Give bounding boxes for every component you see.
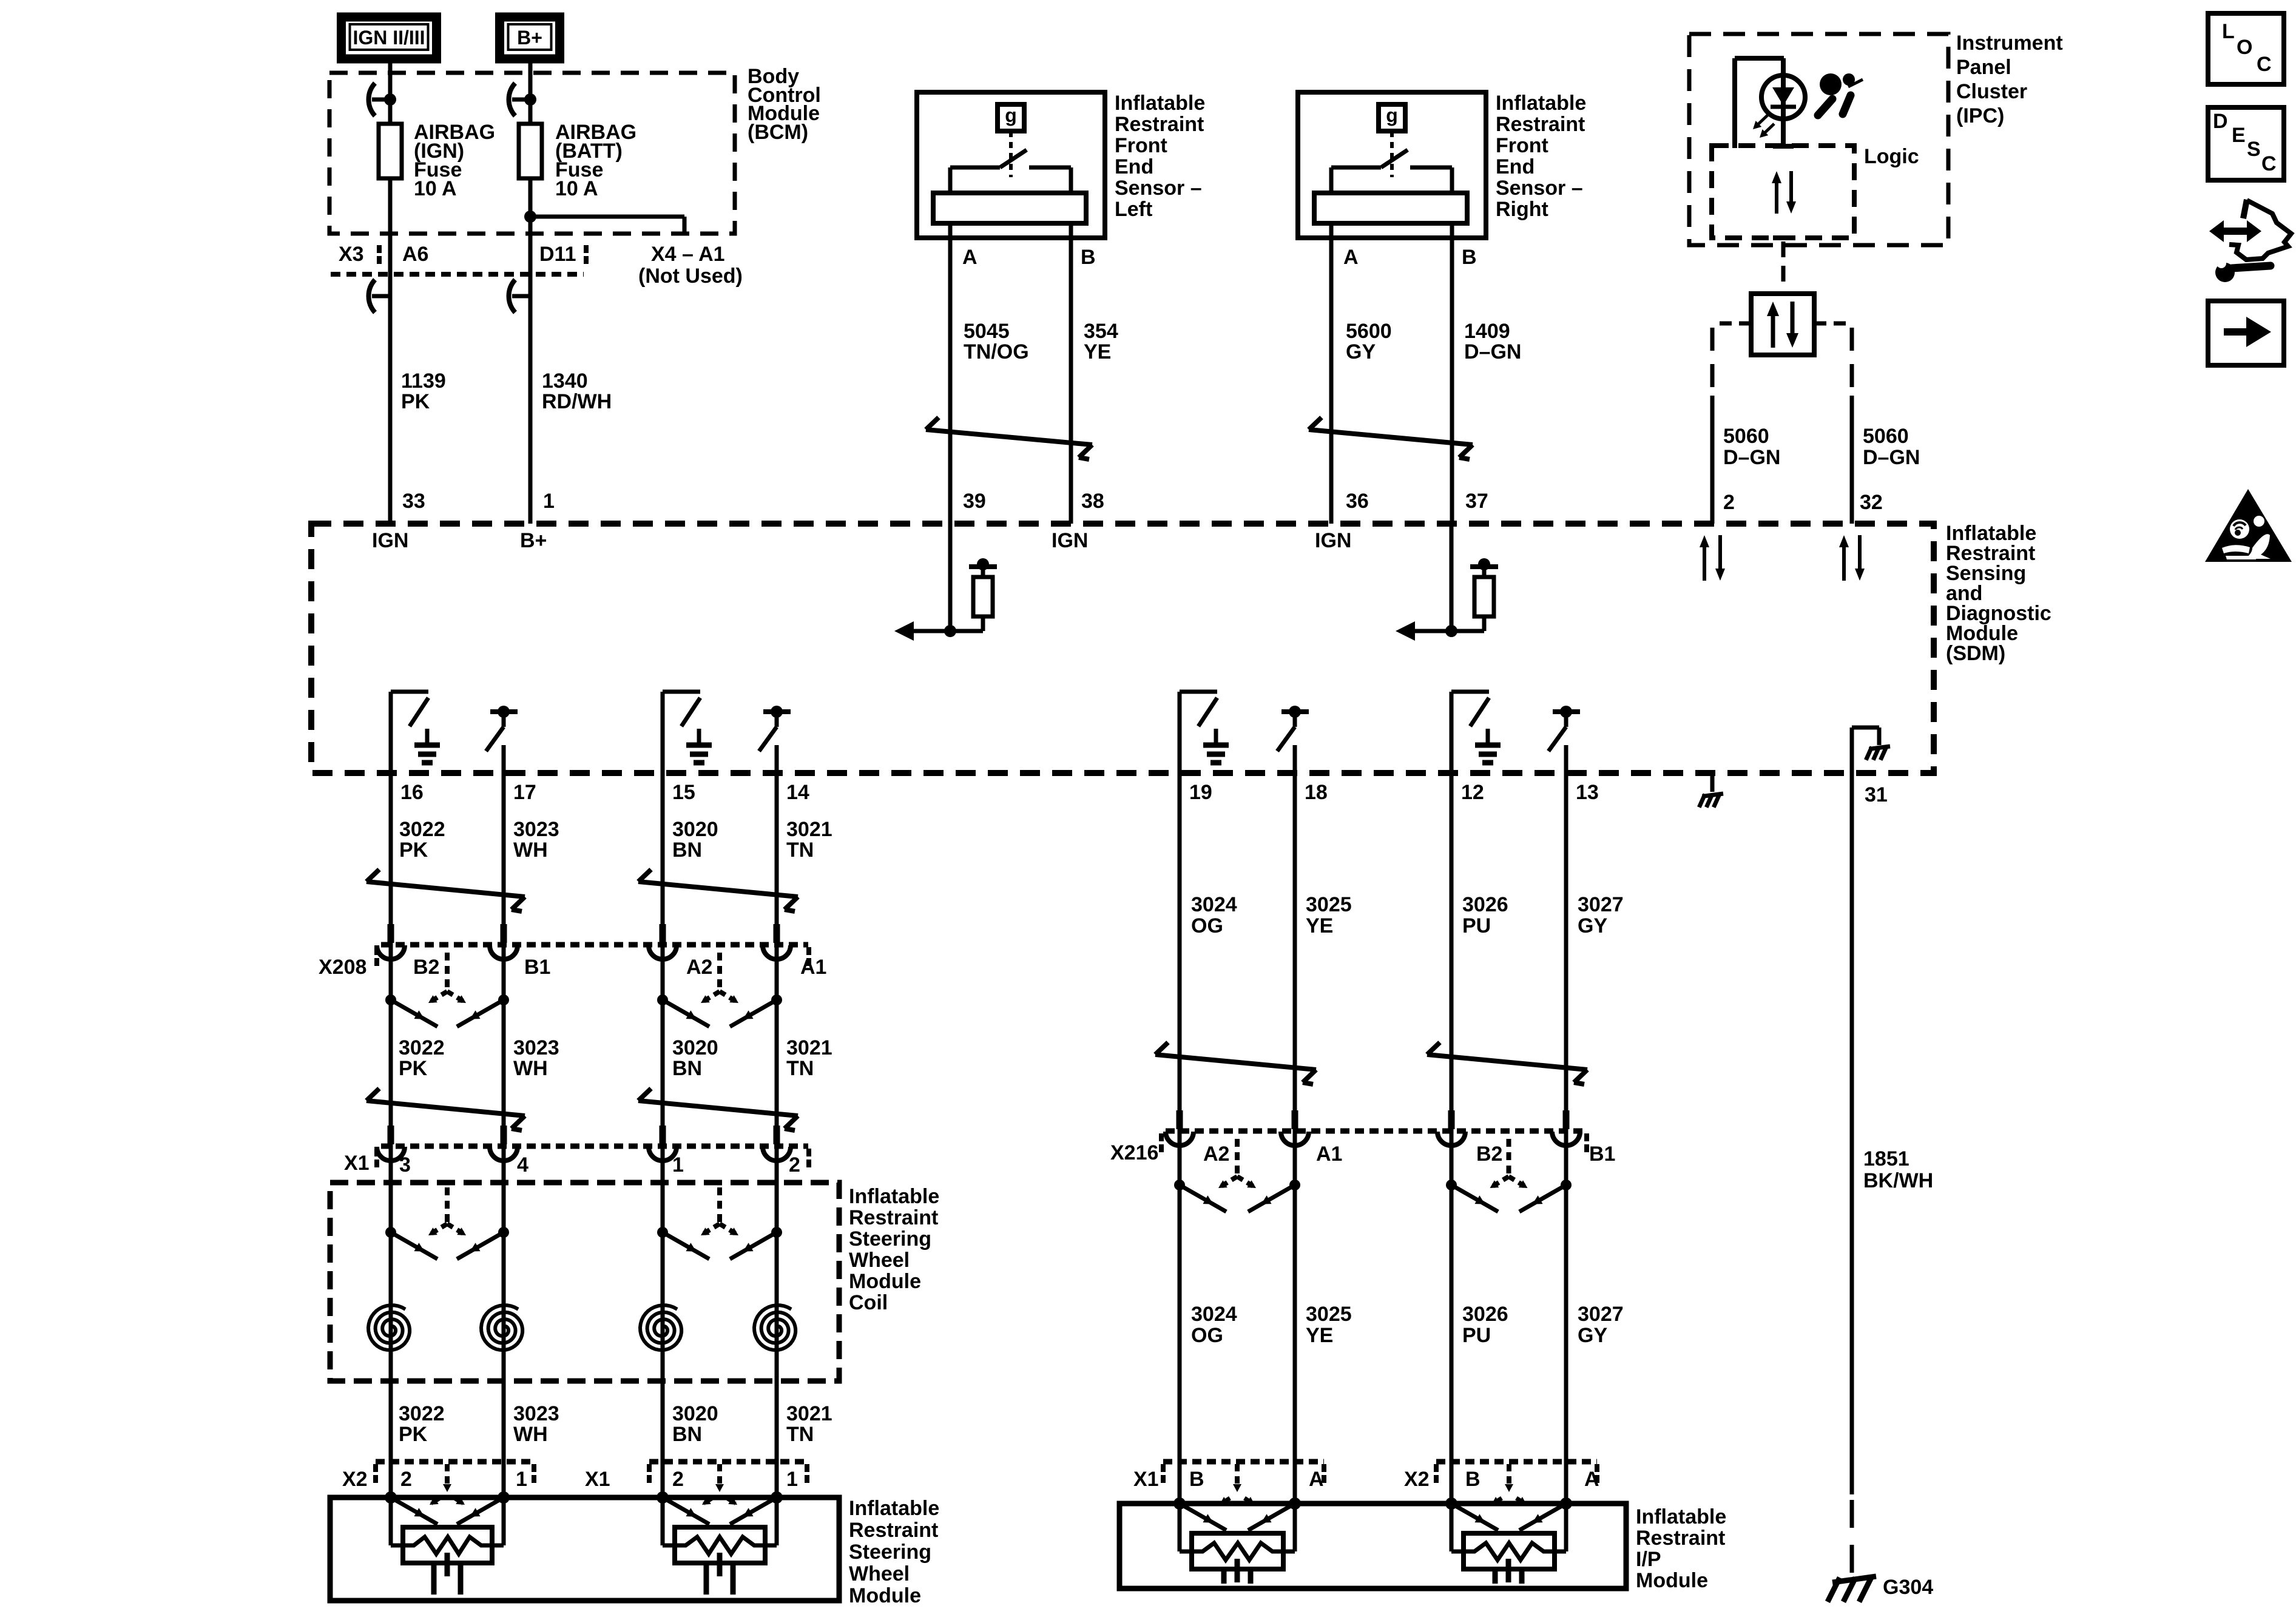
svg-text:S: S <box>2247 138 2261 161</box>
svg-text:3020: 3020 <box>672 818 718 841</box>
svg-text:B: B <box>1465 1468 1481 1491</box>
svg-text:D–GN: D–GN <box>1723 446 1780 469</box>
svg-text:A1: A1 <box>1316 1143 1342 1166</box>
svg-text:(Not Used): (Not Used) <box>638 265 743 288</box>
svg-text:3021: 3021 <box>786 1036 832 1059</box>
svg-text:1: 1 <box>516 1468 527 1491</box>
svg-text:B+: B+ <box>517 27 542 49</box>
svg-text:3027: 3027 <box>1578 893 1624 916</box>
svg-text:WH: WH <box>513 1423 548 1446</box>
svg-text:5600: 5600 <box>1346 320 1392 343</box>
svg-text:3026: 3026 <box>1462 1303 1508 1326</box>
svg-text:TN: TN <box>786 1057 814 1080</box>
svg-text:Panel: Panel <box>1956 56 2011 79</box>
svg-text:15: 15 <box>672 781 695 804</box>
svg-text:3026: 3026 <box>1462 893 1508 916</box>
svg-text:Restraint: Restraint <box>1496 113 1585 136</box>
svg-text:3025: 3025 <box>1306 1303 1352 1326</box>
svg-text:A2: A2 <box>1203 1143 1229 1166</box>
svg-text:B: B <box>1081 246 1096 269</box>
svg-text:D–GN: D–GN <box>1464 340 1521 363</box>
svg-text:PK: PK <box>401 390 430 413</box>
svg-text:3024: 3024 <box>1191 1303 1237 1326</box>
svg-text:(BCM): (BCM) <box>748 121 808 144</box>
svg-text:Wheel: Wheel <box>849 1562 910 1585</box>
svg-text:Inflatable: Inflatable <box>1636 1505 1726 1528</box>
svg-text:3023: 3023 <box>513 818 559 841</box>
svg-text:3022: 3022 <box>399 1036 445 1059</box>
svg-text:Sensor –: Sensor – <box>1496 177 1583 200</box>
svg-text:3024: 3024 <box>1191 893 1237 916</box>
svg-text:PK: PK <box>399 1423 428 1446</box>
svg-text:L: L <box>2222 20 2235 43</box>
svg-text:G304: G304 <box>1883 1576 1933 1599</box>
svg-text:PU: PU <box>1462 1324 1491 1347</box>
svg-text:354: 354 <box>1084 320 1118 343</box>
svg-text:g: g <box>1005 104 1017 126</box>
svg-text:3022: 3022 <box>399 1402 445 1425</box>
svg-text:1: 1 <box>786 1468 798 1491</box>
svg-text:B2: B2 <box>1476 1143 1502 1166</box>
svg-text:D: D <box>2213 110 2228 133</box>
svg-text:3021: 3021 <box>786 1402 832 1425</box>
svg-text:(IPC): (IPC) <box>1956 104 2004 127</box>
svg-text:Restraint: Restraint <box>1115 113 1204 136</box>
svg-text:3020: 3020 <box>672 1402 718 1425</box>
svg-text:13: 13 <box>1576 781 1599 804</box>
svg-text:Module: Module <box>1636 1569 1708 1592</box>
svg-text:18: 18 <box>1305 781 1328 804</box>
svg-text:IGN II/III: IGN II/III <box>353 27 425 49</box>
svg-text:17: 17 <box>513 781 536 804</box>
svg-text:Front: Front <box>1115 134 1167 157</box>
svg-text:IGN: IGN <box>1315 529 1351 552</box>
svg-text:Wheel: Wheel <box>849 1249 910 1272</box>
svg-text:GY: GY <box>1578 1324 1607 1347</box>
svg-text:Coil: Coil <box>849 1291 888 1314</box>
svg-text:O: O <box>2237 36 2252 59</box>
svg-text:36: 36 <box>1346 490 1369 513</box>
svg-text:2: 2 <box>672 1468 684 1491</box>
svg-text:Logic: Logic <box>1864 145 1919 168</box>
svg-text:1851: 1851 <box>1863 1147 1909 1170</box>
svg-text:A: A <box>1309 1468 1324 1491</box>
svg-text:Inflatable: Inflatable <box>849 1497 939 1520</box>
svg-text:WH: WH <box>513 839 548 862</box>
svg-text:BN: BN <box>672 1057 702 1080</box>
svg-text:PK: PK <box>399 839 428 862</box>
svg-text:A: A <box>962 246 977 269</box>
svg-text:A2: A2 <box>686 956 712 979</box>
svg-text:X1: X1 <box>344 1152 370 1175</box>
svg-text:(SDM): (SDM) <box>1946 642 2005 665</box>
svg-text:5060: 5060 <box>1863 425 1909 448</box>
svg-text:Sensor –: Sensor – <box>1115 177 1202 200</box>
svg-text:B: B <box>1462 246 1477 269</box>
svg-text:5045: 5045 <box>964 320 1010 343</box>
svg-text:3022: 3022 <box>399 818 445 841</box>
svg-text:37: 37 <box>1465 490 1488 513</box>
svg-text:B1: B1 <box>1589 1143 1615 1166</box>
svg-text:3020: 3020 <box>672 1036 718 1059</box>
svg-text:2: 2 <box>789 1153 800 1176</box>
svg-text:X2: X2 <box>342 1468 368 1491</box>
svg-text:10 A: 10 A <box>555 177 598 200</box>
svg-text:GY: GY <box>1578 914 1607 937</box>
svg-text:3: 3 <box>399 1153 411 1176</box>
svg-text:1: 1 <box>543 490 555 513</box>
svg-text:BK/WH: BK/WH <box>1863 1169 1933 1192</box>
svg-text:A1: A1 <box>800 956 826 979</box>
svg-text:3023: 3023 <box>513 1402 559 1425</box>
svg-text:14: 14 <box>786 781 809 804</box>
svg-text:X1: X1 <box>585 1468 610 1491</box>
svg-text:Inflatable: Inflatable <box>1115 92 1205 115</box>
svg-text:TN: TN <box>786 839 814 862</box>
svg-text:Module: Module <box>849 1584 921 1607</box>
svg-text:4: 4 <box>517 1153 528 1176</box>
svg-text:PU: PU <box>1462 914 1491 937</box>
svg-text:YE: YE <box>1084 340 1111 363</box>
svg-text:PK: PK <box>399 1057 428 1080</box>
svg-text:2: 2 <box>400 1468 412 1491</box>
svg-text:RD/WH: RD/WH <box>542 390 612 413</box>
svg-text:X1: X1 <box>1133 1468 1159 1491</box>
svg-text:X4 – A1: X4 – A1 <box>651 243 725 266</box>
svg-text:Left: Left <box>1115 198 1152 221</box>
svg-text:IGN: IGN <box>372 529 408 552</box>
svg-text:IGN: IGN <box>1052 529 1088 552</box>
svg-text:A: A <box>1343 246 1359 269</box>
svg-text:19: 19 <box>1189 781 1212 804</box>
svg-text:WH: WH <box>513 1057 548 1080</box>
svg-text:Right: Right <box>1496 198 1548 221</box>
svg-text:Restraint: Restraint <box>849 1519 938 1542</box>
svg-text:Inflatable: Inflatable <box>849 1185 939 1208</box>
svg-text:Restraint: Restraint <box>1636 1527 1725 1550</box>
svg-text:16: 16 <box>400 781 424 804</box>
svg-text:BN: BN <box>672 839 702 862</box>
svg-text:B: B <box>1189 1468 1204 1491</box>
svg-text:X216: X216 <box>1110 1141 1158 1164</box>
svg-text:3021: 3021 <box>786 818 832 841</box>
svg-text:Instrument: Instrument <box>1956 32 2063 55</box>
svg-text:3027: 3027 <box>1578 1303 1624 1326</box>
svg-text:Front: Front <box>1496 134 1548 157</box>
svg-text:TN/OG: TN/OG <box>964 340 1029 363</box>
svg-text:Steering: Steering <box>849 1541 931 1564</box>
svg-text:Steering: Steering <box>849 1227 931 1251</box>
svg-text:Restraint: Restraint <box>849 1206 938 1229</box>
svg-text:C: C <box>2257 53 2272 76</box>
svg-text:E: E <box>2232 124 2246 147</box>
svg-text:3025: 3025 <box>1306 893 1352 916</box>
svg-text:5060: 5060 <box>1723 425 1769 448</box>
svg-text:3023: 3023 <box>513 1036 559 1059</box>
svg-text:X3: X3 <box>339 243 364 266</box>
svg-text:g: g <box>1386 104 1398 126</box>
svg-text:31: 31 <box>1865 783 1888 806</box>
svg-text:A6: A6 <box>402 243 428 266</box>
svg-text:YE: YE <box>1306 1324 1333 1347</box>
svg-text:1139: 1139 <box>401 370 446 393</box>
svg-text:D11: D11 <box>539 243 576 266</box>
svg-text:C: C <box>2261 152 2277 175</box>
svg-text:X2: X2 <box>1404 1468 1430 1491</box>
svg-text:1: 1 <box>672 1153 684 1176</box>
svg-text:32: 32 <box>1860 491 1883 514</box>
svg-text:Cluster: Cluster <box>1956 80 2027 103</box>
svg-text:33: 33 <box>402 490 425 513</box>
svg-text:OG: OG <box>1191 914 1223 937</box>
svg-text:I/P: I/P <box>1636 1548 1661 1571</box>
svg-text:Inflatable: Inflatable <box>1496 92 1586 115</box>
svg-text:1409: 1409 <box>1464 320 1510 343</box>
svg-text:38: 38 <box>1081 490 1104 513</box>
svg-text:D–GN: D–GN <box>1863 446 1920 469</box>
svg-text:B1: B1 <box>524 956 550 979</box>
svg-text:TN: TN <box>786 1423 814 1446</box>
svg-text:YE: YE <box>1306 914 1333 937</box>
svg-text:A: A <box>1584 1468 1599 1491</box>
svg-text:OG: OG <box>1191 1324 1223 1347</box>
svg-text:B+: B+ <box>520 529 547 552</box>
svg-text:End: End <box>1115 155 1153 178</box>
svg-text:BN: BN <box>672 1423 702 1446</box>
svg-text:10 A: 10 A <box>414 177 457 200</box>
svg-text:X208: X208 <box>319 956 366 979</box>
svg-text:B2: B2 <box>413 956 439 979</box>
svg-text:2: 2 <box>1723 491 1735 514</box>
svg-text:Module: Module <box>849 1270 921 1293</box>
svg-text:1340: 1340 <box>542 370 588 393</box>
svg-text:GY: GY <box>1346 340 1376 363</box>
svg-text:12: 12 <box>1461 781 1484 804</box>
svg-text:End: End <box>1496 155 1535 178</box>
svg-text:39: 39 <box>963 490 986 513</box>
